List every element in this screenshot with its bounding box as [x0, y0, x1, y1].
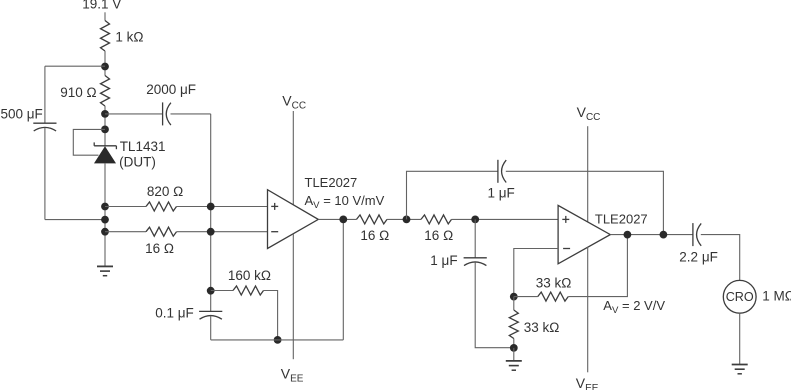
wire between 16 ohm resistors: [387, 218, 421, 220]
svg-text:16 Ω: 16 Ω: [360, 228, 389, 243]
svg-text:19.1 V: 19.1 V: [82, 0, 121, 12]
svg-text:AV = 2 V/V: AV = 2 V/V: [603, 298, 665, 316]
wire 160k right and down: [264, 291, 278, 340]
wire 820 row left: [105, 206, 146, 208]
svg-text:1 kΩ: 1 kΩ: [115, 30, 143, 45]
node I feedback junction: [207, 287, 215, 295]
svg-text:AV = 10 V/mV: AV = 10 V/mV: [305, 193, 385, 211]
wire 33k bottom to node M: [513, 339, 515, 348]
node H: [207, 228, 215, 236]
svg-text:(DUT): (DUT): [119, 155, 156, 170]
wire 16 row left: [105, 231, 146, 233]
op-amp U2 TLE2027 triangle: [558, 205, 610, 263]
TL1431 (DUT) shunt regulator triangle: [95, 147, 115, 163]
resistor 16 &#937; series 1: [357, 215, 388, 224]
resistor 16 &#937; series 2: [421, 215, 452, 224]
svg-text:TLE2027: TLE2027: [305, 175, 358, 190]
svg-text:1 MΩ: 1 MΩ: [762, 288, 791, 303]
resistor 910 &#937; (vertical): [101, 76, 110, 107]
CRO oscilloscope circle: [723, 280, 756, 313]
wire left rail lower: [44, 128, 46, 220]
wire TL1431 anode down to ground: [104, 163, 106, 267]
node C TL1431 cathode: [101, 125, 109, 133]
node 4: [624, 231, 632, 239]
node A junction: [101, 63, 109, 71]
ground below 33k: [506, 360, 522, 362]
resistor 16 &#937; input: [146, 227, 177, 236]
wire node3 down to 1uF: [474, 219, 476, 257]
wire VCC lead opamp1: [292, 111, 294, 205]
svg-text:2000 μF: 2000 μF: [146, 82, 196, 97]
node J: [274, 336, 282, 344]
node L: [510, 293, 518, 301]
wire node I to 160k: [211, 290, 233, 292]
svg-text:33 kΩ: 33 kΩ: [536, 276, 572, 291]
wire top feedback to output node: [506, 171, 664, 234]
svg-text:0.1 μF: 0.1 μF: [155, 306, 194, 321]
wire 910 to TL1431 cathode: [104, 106, 106, 146]
svg-text:TL1431: TL1431: [120, 139, 166, 154]
svg-text:820 Ω: 820 Ω: [147, 184, 183, 199]
resistor 1 k&#937; (vertical): [101, 21, 110, 52]
capacitor 1 uF bottom: [464, 257, 487, 259]
ground below TL1431: [97, 265, 113, 267]
ground below CRO: [732, 364, 748, 366]
wire below 1uF to 33k node: [475, 262, 514, 348]
svg-text:500 μF: 500 μF: [1, 106, 43, 121]
resistor 33 k&#937; feedback: [538, 292, 569, 301]
plus input marker U1: [271, 205, 278, 207]
resistor 160 k&#937;: [233, 286, 264, 295]
wire top feedback riser: [407, 171, 498, 219]
node D 820 row: [101, 203, 109, 211]
wire node A to left rail: [45, 65, 105, 67]
resistor 33 k&#937; to ground (vertical): [513, 297, 515, 310]
svg-text:16 Ω: 16 Ω: [424, 228, 453, 243]
node F 16 row: [101, 228, 109, 236]
wire node M to ground: [513, 348, 515, 361]
node E rail row: [101, 216, 109, 224]
wire 2000uF to column 2: [171, 113, 211, 115]
wire U1 output: [318, 218, 356, 220]
node B junction to 2000uF: [101, 110, 109, 118]
wire VEE lead opamp1: [292, 234, 294, 359]
capacitor 1 uF top: [497, 160, 499, 183]
wire feedback bottom line: [211, 339, 344, 341]
capacitor 0.1 uF: [199, 310, 222, 312]
wire U2 output: [610, 234, 693, 236]
svg-text:2.2 μF: 2.2 μF: [679, 250, 718, 265]
svg-text:160 kΩ: 160 kΩ: [228, 268, 271, 283]
svg-text:CRO: CRO: [726, 290, 754, 304]
wire U2 -in branch: [514, 249, 558, 297]
svg-text:VEE: VEE: [281, 366, 304, 385]
wire 820 row right to +in: [177, 206, 268, 208]
svg-text:1 μF: 1 μF: [430, 253, 457, 268]
wire node B to 2000uF cap: [105, 113, 163, 115]
wire node L to 33k: [514, 296, 538, 298]
wire 33k to output riser: [568, 235, 627, 297]
wire left rail to node E: [45, 219, 105, 221]
svg-text:33 kΩ: 33 kΩ: [524, 320, 560, 335]
wire VCC lead opamp2: [587, 126, 589, 222]
node 2: [403, 216, 411, 224]
minus input marker U1: [271, 231, 278, 233]
wire 16 row right to -in: [177, 231, 268, 233]
wire supply lead: [104, 12, 106, 20]
TL1431 cathode bar: [94, 145, 116, 147]
plus input marker U2: [562, 218, 569, 220]
svg-text:16 Ω: 16 Ω: [145, 241, 174, 256]
node K output U1: [339, 216, 347, 224]
svg-text:VCC: VCC: [282, 92, 306, 111]
capacitor 500 uF: [33, 122, 56, 124]
wire left rail upper: [44, 66, 46, 123]
wire CRO to ground: [739, 313, 741, 364]
svg-text:910 Ω: 910 Ω: [60, 85, 96, 100]
node 3: [471, 216, 479, 224]
node 5: [660, 231, 668, 239]
minus input marker U2: [563, 248, 570, 250]
wire below 0.1uF: [210, 316, 212, 340]
svg-text:TLE2027: TLE2027: [595, 212, 648, 227]
svg-text:VCC: VCC: [577, 104, 601, 123]
wire 2.2uF to CRO: [701, 235, 740, 281]
wire TL1431 reference feedback loop: [73, 129, 105, 155]
wire VEE lead opamp2: [587, 247, 589, 372]
wire to U2 +in: [452, 218, 559, 220]
svg-text:VEE: VEE: [576, 375, 599, 390]
node G: [207, 203, 215, 211]
svg-text:1 μF: 1 μF: [488, 185, 515, 200]
capacitor 2.2 uF: [692, 223, 694, 246]
resistor 820 &#937;: [146, 202, 177, 211]
op-amp U1 TLE2027 triangle: [268, 190, 319, 249]
wire 1k to 910 through node A: [104, 51, 106, 76]
wire column 2 vertical down: [210, 114, 212, 312]
node M: [510, 344, 518, 352]
capacitor 2000 uF: [162, 102, 164, 125]
wire feedback up to output: [342, 219, 344, 340]
